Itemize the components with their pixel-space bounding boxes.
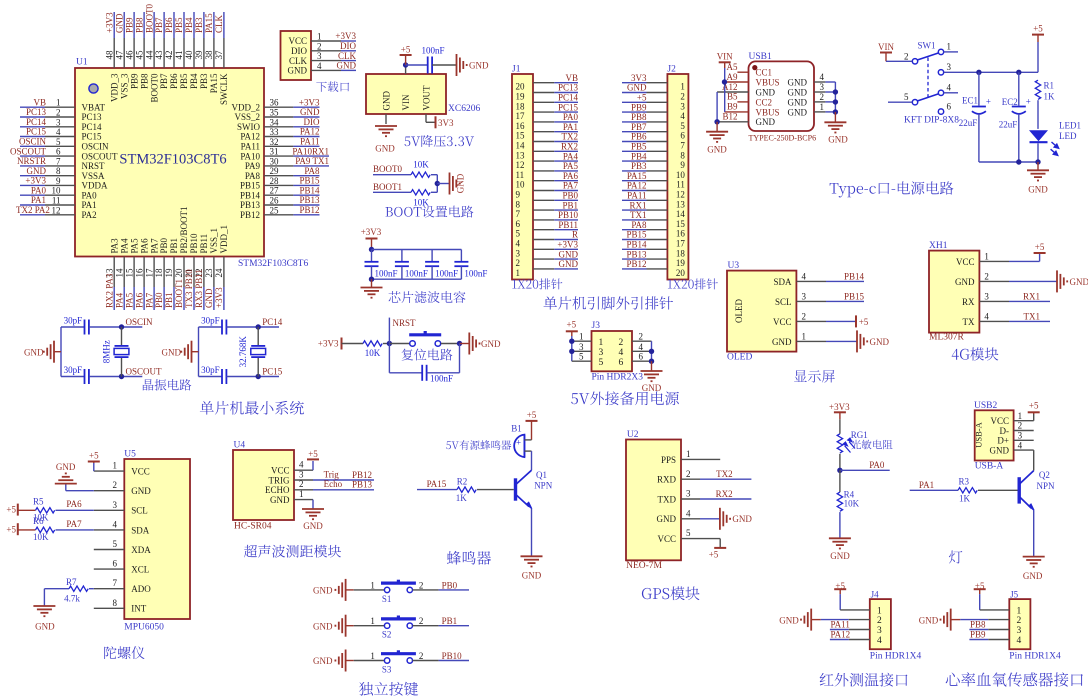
GPS U2 NEO-7M body [626,440,681,561]
svg-text:GND: GND [303,521,323,531]
svg-text:4: 4 [680,111,685,121]
svg-text:5: 5 [56,137,61,147]
capacitor 100nF C4 [460,250,462,262]
svg-text:Trig: Trig [324,469,340,479]
capacitor 30pF bottom [199,376,223,378]
title 5V buck 3.3V [404,135,474,147]
svg-text:SWCLK: SWCLK [219,73,229,105]
XH1 RX net RX1 [1009,300,1050,302]
display U3 OLED body [727,271,796,352]
svg-text:2: 2 [299,479,304,489]
filter cap top rail [372,249,462,251]
svg-text:PA11: PA11 [241,142,260,152]
XC6206 VOUT to 3V3 rail [425,114,427,122]
svg-text:15: 15 [516,131,526,141]
svg-text:PA6: PA6 [134,292,144,308]
svg-text:GND: GND [375,144,395,154]
reset push button [389,343,409,345]
U2 PPS stub [700,458,720,460]
svg-text:PB5: PB5 [631,142,647,152]
svg-text:10: 10 [676,170,686,180]
svg-text:DIO: DIO [340,41,356,51]
svg-text:CLK: CLK [289,56,308,66]
U1 left pin 7 (NRST) wire / net NRSTR [20,165,45,167]
svg-text:NPN: NPN [534,481,553,491]
U1 right pin 32 (PA11) wire / net PA11 [264,145,293,147]
svg-text:B9: B9 [727,102,738,112]
svg-text:TXD: TXD [658,494,677,504]
svg-text:3: 3 [299,469,304,479]
U4 ECHO net PB13 [313,489,374,491]
svg-text:45: 45 [134,50,144,60]
resistor R7 4.7k on ADO [44,588,69,590]
svg-text:KFT DIP-8X8: KFT DIP-8X8 [904,116,959,126]
svg-text:+5: +5 [1035,242,1045,252]
svg-text:PA10RX1: PA10RX1 [292,146,329,156]
svg-text:1: 1 [579,332,584,342]
svg-text:30pF: 30pF [64,315,83,325]
svg-text:14: 14 [676,209,686,219]
svg-text:PB1: PB1 [169,238,179,254]
svg-text:OSCIN: OSCIN [126,317,154,327]
svg-text:1: 1 [370,616,375,626]
svg-text:7: 7 [680,141,685,151]
svg-text:TX: TX [963,317,975,327]
svg-text:GND: GND [162,347,182,357]
svg-text:2: 2 [820,92,825,102]
svg-text:GND: GND [779,615,799,625]
svg-text:31: 31 [270,147,279,157]
svg-text:PA8: PA8 [304,166,320,176]
svg-text:B12: B12 [722,112,737,122]
svg-text:32: 32 [270,137,279,147]
BOOT junction to ground [436,175,438,193]
svg-text:6: 6 [947,102,952,112]
J1 pin 15 wire / net PA1 [533,131,554,133]
svg-text:+3V3: +3V3 [361,227,382,237]
svg-text:36: 36 [270,98,280,108]
svg-text:30: 30 [270,156,280,166]
svg-text:GND: GND [788,87,808,97]
svg-text:PB0: PB0 [154,292,164,308]
svg-text:GND: GND [35,622,55,632]
U1 top pin 47 (VSS_3) wire / net GND [123,12,125,38]
J2 pin 12 wire / net PA12 [622,190,647,192]
svg-text:27: 27 [270,186,280,196]
svg-text:RX2 PA3: RX2 PA3 [104,273,114,308]
svg-text:USB1: USB1 [749,52,772,62]
svg-text:9: 9 [56,176,61,186]
U1 bottom pin 22 (PB11) wire / net RX3 PB11 [203,257,205,288]
svg-text:GND: GND [456,173,466,193]
svg-text:PB3: PB3 [199,73,209,89]
svg-text:VSSA: VSSA [82,171,106,181]
svg-text:VSS_2: VSS_2 [234,112,260,122]
label 1X20 header J2 [668,278,718,289]
title ultrasonic ranging module [244,545,341,558]
USB2 +5 flag [1033,414,1035,421]
resistor 10K reset [363,341,382,346]
J2 pin 20 wire / net PB12 [622,268,647,270]
svg-text:+3V3: +3V3 [318,338,339,348]
svg-text:PC14: PC14 [558,93,579,103]
U3 SDA net PB14 [826,280,864,282]
MCU U1 STM32F103C8T6 body [75,68,264,257]
svg-text:5: 5 [680,121,685,131]
U1 left pin 3 (PC14) wire / net PC14 [20,126,45,128]
svg-text:1: 1 [1017,607,1022,617]
U1 bottom pin 23 (VSS_1) wire / net GND [213,257,215,288]
svg-text:GND: GND [559,249,579,259]
svg-text:100nF: 100nF [435,268,458,278]
U1 top pin 43 (PB7) wire / net PB7 [163,12,165,38]
title independent buttons [359,682,418,696]
svg-text:20: 20 [676,268,686,278]
Q1 emitter to ground [531,509,533,557]
svg-text:6: 6 [639,352,644,362]
svg-text:2: 2 [802,311,807,321]
capacitor 30pF top [61,326,85,328]
svg-text:PB11: PB11 [558,220,578,230]
svg-text:+: + [1026,97,1031,107]
push button S1 [354,589,385,591]
resistor R4 10K [839,470,841,492]
svg-text:GND: GND [772,337,792,347]
svg-text:GND: GND [313,621,333,631]
svg-text:GND: GND [469,61,489,71]
svg-text:PA15: PA15 [209,73,219,93]
svg-text:4: 4 [516,239,521,249]
svg-text:1: 1 [599,338,604,348]
U1 right pin 26 (PB13) wire / net PB13 [264,204,293,206]
svg-text:SDA: SDA [773,277,792,287]
J1 pin 7 wire / net PB1 [533,209,554,211]
header J1 1X20 body [512,74,533,280]
J2 pin 5 wire / net PB8 [622,121,647,123]
svg-text:OSCOUT: OSCOUT [10,146,47,156]
svg-text:5: 5 [113,539,118,549]
svg-text:5: 5 [516,229,521,239]
svg-text:10K: 10K [365,348,381,358]
svg-text:7: 7 [113,578,118,588]
header J3 HDR2X3 body [592,331,633,371]
download header pin 2 (DIO) wire / net DIO [311,50,341,52]
J1 pin 13 wire / net RX2 [533,150,554,152]
svg-text:26: 26 [270,196,280,206]
svg-text:PPS: PPS [661,455,676,465]
svg-text:RX1: RX1 [1023,291,1040,301]
J2 pin 15 wire / net TX1 [622,219,647,221]
svg-text:1: 1 [113,461,118,471]
J3 right pins [632,340,652,342]
title buzzer [447,551,491,565]
crystal 8MHz [121,327,123,346]
U1 right pin 27 (PB14) wire / net PB14 [264,194,293,196]
J2 pin 4 wire / net PB9 [622,111,647,113]
svg-text:GND: GND [56,462,76,472]
svg-text:VOUT: VOUT [422,85,432,110]
U1 right pin 34 (SWIO) wire / net DIO [264,126,293,128]
svg-text:4: 4 [299,460,304,470]
U1 bottom pin 18 (PB0) wire / net PB0 [163,257,165,288]
label 1X20 header J1 [512,278,562,289]
svg-text:1: 1 [370,580,375,590]
U1 left pin 9 (VDDA) wire / net +3V3 [20,184,45,186]
svg-text:16: 16 [676,229,686,239]
svg-text:19: 19 [516,92,526,102]
svg-text:12: 12 [516,160,525,170]
svg-text:10K: 10K [413,160,429,170]
svg-text:PB8: PB8 [970,620,986,630]
svg-text:PB13: PB13 [299,195,320,205]
svg-text:+3V3: +3V3 [829,402,850,412]
svg-text:PB0: PB0 [562,191,578,201]
svg-text:PA15: PA15 [204,13,214,33]
svg-text:PC14: PC14 [82,122,103,132]
svg-text:+3V3: +3V3 [25,176,46,186]
svg-text:VCC: VCC [657,534,676,544]
svg-text:PA12: PA12 [831,630,851,640]
svg-text:VCC: VCC [956,257,975,267]
title BOOT setting circuit [386,206,474,218]
svg-text:10K: 10K [413,198,429,208]
svg-text:+5: +5 [308,449,318,459]
svg-text:S2: S2 [382,630,392,640]
svg-text:USB2: USB2 [974,401,997,411]
svg-text:J2: J2 [667,65,676,75]
J1 pin 16 wire / net PA0 [533,121,554,123]
USB1 right ground bus [834,82,836,112]
svg-text:8: 8 [113,598,118,608]
svg-text:D+: D+ [997,436,1009,446]
svg-text:6: 6 [619,358,624,368]
svg-text:PC14: PC14 [262,317,283,327]
svg-text:Echo: Echo [324,479,343,489]
svg-text:GND: GND [114,13,124,33]
svg-text:19: 19 [676,258,686,268]
J2 pin 6 wire / net PB7 [622,131,647,133]
svg-text:BOOT1: BOOT1 [174,279,184,308]
svg-text:16: 16 [516,121,526,131]
svg-text:OSCIN: OSCIN [82,142,110,152]
resistor 10K BOOT1 [411,190,430,195]
svg-text:2: 2 [877,616,882,626]
photoresistor RG1 [837,434,842,453]
svg-text:XCL: XCL [131,565,149,575]
svg-text:3: 3 [984,291,989,301]
svg-text:30pF: 30pF [201,365,220,375]
svg-text:BOOT0: BOOT0 [373,164,402,174]
U1 right pin 35 (VSS_2) wire / net GND [264,116,293,118]
J2 pin 7 wire / net PB6 [622,141,647,143]
title crystal circuit [143,379,191,390]
svg-text:DIO: DIO [291,46,307,56]
svg-text:VDD_2: VDD_2 [232,102,261,112]
svg-text:1: 1 [56,98,61,108]
svg-text:3V3: 3V3 [438,118,454,128]
U3 VCC +5 flag [826,320,856,322]
svg-text:GND: GND [24,347,44,357]
LED1 [1029,130,1048,141]
svg-text:PA6: PA6 [66,499,82,509]
svg-text:7: 7 [516,209,521,219]
svg-text:TX2 PA2: TX2 PA2 [16,205,50,215]
svg-text:14: 14 [114,268,124,278]
svg-text:38: 38 [204,50,214,60]
ground of power circuit [1037,162,1039,170]
U1 right pin 25 (PB12) wire / net PB12 [264,214,293,216]
svg-text:GND: GND [788,107,808,117]
svg-text:PB14: PB14 [626,240,647,250]
svg-text:Pin HDR1X4: Pin HDR1X4 [870,652,922,662]
svg-text:10: 10 [516,180,526,190]
svg-text:+5: +5 [527,410,537,420]
resistor R2 1K [457,487,476,492]
title display [794,370,835,383]
svg-text:100nF: 100nF [430,374,453,384]
svg-text:MPU6050: MPU6050 [124,623,164,633]
svg-text:PB13: PB13 [352,480,373,490]
svg-text:TX2: TX2 [716,469,733,479]
svg-text:5: 5 [579,352,584,362]
svg-text:PA12: PA12 [300,127,320,137]
svg-text:XC6206: XC6206 [448,104,480,114]
J1 pin 11 wire / net PA5 [533,170,554,172]
svg-text:GND: GND [559,259,579,269]
svg-text:PB5: PB5 [179,73,189,89]
svg-text:1: 1 [947,42,952,52]
title MCU pin breakout headers [544,296,673,309]
svg-text:TX2: TX2 [562,132,579,142]
svg-text:11: 11 [52,196,61,206]
svg-text:2: 2 [419,580,424,590]
svg-text:4: 4 [686,508,691,518]
svg-text:CC1: CC1 [756,68,773,78]
svg-text:TX3 PB10: TX3 PB10 [184,269,194,308]
svg-text:GND: GND [732,514,752,524]
U1 top pin 45 (PB8) wire / net PB8 [143,12,145,38]
svg-text:3: 3 [599,348,604,358]
svg-text:PA5: PA5 [563,161,579,171]
XC6206 GND pin to ground [385,114,387,124]
svg-text:RX: RX [962,297,975,307]
svg-text:4: 4 [1017,636,1022,646]
+5 power to XC6206 VIN [405,65,407,74]
svg-text:25: 25 [270,205,280,215]
svg-text:3: 3 [579,342,584,352]
svg-text:3: 3 [820,82,825,92]
svg-text:8: 8 [680,150,685,160]
svg-text:PA7: PA7 [149,238,159,254]
capacitor 100nF C3 [431,250,433,262]
title lamp [949,551,962,564]
U1 top pin 41 (PB5) wire / net PB5 [183,12,185,38]
svg-text:PB5: PB5 [174,17,184,33]
U1 left pin 5 (OSCIN) wire / net OSCIN [20,145,45,147]
svg-text:PB4: PB4 [631,151,647,161]
svg-text:A9: A9 [727,72,738,82]
svg-text:B1: B1 [511,424,522,434]
capacitor EC1 22uF [978,72,980,105]
node PA0 [837,468,842,473]
svg-text:18: 18 [516,101,526,111]
svg-text:GND: GND [990,446,1010,456]
svg-text:PA1: PA1 [82,200,97,210]
svg-text:PB9: PB9 [970,630,986,640]
svg-text:PB4: PB4 [189,73,199,89]
svg-text:18: 18 [154,268,164,278]
J2 pin 18 wire / net PB14 [622,248,647,250]
U1 top pin 39 (PB3) wire / net PB3 [203,12,205,38]
svg-text:3: 3 [56,117,61,127]
svg-text:PA5: PA5 [124,292,134,308]
svg-text:PA2: PA2 [82,210,97,220]
crystal 32.768K [257,327,259,346]
USB1 polarity dot [752,65,757,70]
J1 pin 19 wire / net PC13 [533,92,554,94]
svg-text:Q2: Q2 [1039,470,1050,480]
svg-text:EC1: EC1 [962,96,978,106]
U1 left pin 8 (VSSA) wire / net GND [20,175,45,177]
svg-text:19: 19 [164,268,174,278]
svg-text:GND: GND [756,87,776,97]
svg-text:35: 35 [270,108,280,118]
svg-text:PA15: PA15 [627,171,647,181]
svg-text:23: 23 [204,268,214,278]
svg-text:VBUS: VBUS [756,107,780,117]
svg-text:J3: J3 [592,321,601,331]
svg-text:5: 5 [904,92,909,102]
svg-text:3: 3 [877,626,882,636]
svg-text:PC15: PC15 [262,366,283,376]
svg-text:2: 2 [984,271,989,281]
svg-text:U4: U4 [234,441,246,451]
R4 to ground [839,512,841,538]
svg-text:VIN: VIN [401,94,411,110]
svg-text:SWIO: SWIO [237,122,260,132]
capacitor 100nF C1 [371,250,373,262]
J1 pin 6 wire / net PB10 [533,219,554,221]
power rail from SW1 pin3 [944,71,1038,73]
J1 pin 4 wire / net R [533,239,554,241]
svg-text:TYPEC-250D-BCP6: TYPEC-250D-BCP6 [749,134,817,143]
svg-text:SDA: SDA [131,525,150,535]
svg-text:9: 9 [516,190,521,200]
svg-text:+5: +5 [709,550,719,560]
svg-text:NRST: NRST [82,161,106,171]
title xiazaikou [316,81,349,92]
svg-text:U2: U2 [627,430,639,440]
svg-text:1: 1 [802,331,807,341]
J2 pin 1 wire / net 3V3 [622,82,647,84]
svg-text:XDA: XDA [131,545,151,555]
svg-text:PB10: PB10 [442,651,463,661]
svg-text:6: 6 [113,559,118,569]
svg-text:PB8: PB8 [134,17,144,33]
U4 GND flag [312,500,314,509]
svg-text:Q1: Q1 [536,470,547,480]
svg-text:PB4: PB4 [184,17,194,33]
svg-text:PA5: PA5 [129,238,139,254]
svg-text:SW1: SW1 [918,41,936,51]
svg-text:R2: R2 [457,477,468,487]
J1 pin 18 wire / net PC14 [533,101,554,103]
svg-text:GND: GND [27,166,47,176]
Q2 emitter to ground [1033,510,1035,556]
svg-text:+5: +5 [401,45,411,55]
svg-text:3: 3 [113,500,118,510]
svg-text:PA7: PA7 [66,519,82,529]
